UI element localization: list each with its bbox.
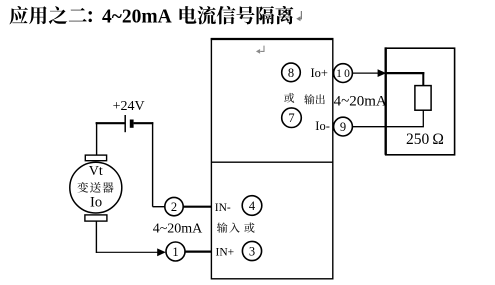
transmitter label 变送器 [77,182,113,193]
load box thick left edge [385,47,387,154]
isolator module box U1 [211,39,332,279]
terminal circle 8 [282,63,301,82]
svg-text:3: 3 [249,244,255,258]
battery B1: long plate [124,115,126,132]
wire: left drop to transmitter [96,122,98,155]
svg-text:7: 7 [288,111,294,125]
svg-text:4: 4 [249,199,256,213]
transmitter T1: body circle [70,162,122,213]
svg-text:2: 2 [171,200,177,214]
battery B1: short thick plate [130,120,134,128]
svg-text:4~20mA: 4~20mA [334,93,387,109]
svg-text:Io-: Io- [315,119,330,133]
terminal circle 9 [334,117,353,136]
terminal circle 7 [282,108,302,128]
或 (input alt label) [244,223,254,233]
wire: circle 1 to box (thick) [185,251,212,253]
terminal circle 10 [334,64,353,83]
terminal circle 3 [242,241,261,260]
svg-text:1: 1 [172,245,178,259]
wire: circle 2 to box (thick) [183,206,211,208]
isolator box thick top edge [211,38,334,40]
svg-text:4~20mA: 4~20mA [153,222,203,237]
或 (output alt label) [284,93,294,103]
svg-text:Io: Io [90,194,102,210]
wire: terminal 10 to load box [352,72,379,74]
title: 应用之二: 4~20mA 电流信号隔离 [9,6,86,24]
svg-text:9: 9 [340,120,346,134]
wire: battery right lead [134,122,154,124]
svg-text:1 0: 1 0 [336,68,350,80]
svg-text:4~20mA: 4~20mA [102,7,172,28]
wire: resistor bottom return [422,110,424,127]
svg-text:8: 8 [288,66,294,80]
wire: right drop to circle 2 [152,122,154,207]
terminal circle 1 [166,242,185,261]
paragraph return mark (title) [298,11,301,19]
svg-text:IN-: IN- [215,202,231,214]
svg-text:IN+: IN+ [216,246,235,258]
terminal circle 2 [165,197,183,215]
wire: transmitter bottom drop [95,221,97,253]
load box [386,48,455,155]
resistor R1 [415,86,431,111]
isolator internal divider [211,161,332,163]
transmitter T1: top terminal [85,155,106,161]
输入 label [217,222,240,232]
svg-text:+24V: +24V [113,99,145,114]
svg-text:250 Ω: 250 Ω [406,131,444,148]
arrowhead into load box [378,69,387,77]
wire: thick feed to resistor top [386,72,424,74]
svg-text:Io+: Io+ [311,66,328,80]
输出 label [304,94,325,104]
terminal circle 4 [242,196,262,216]
transmitter T1: bottom terminal [85,215,107,221]
wire: battery left lead [96,122,126,124]
wire: transmitter to circle 1 with arrowhead [96,251,158,253]
paragraph return mark (inside box) [260,46,264,52]
svg-text:Vt: Vt [89,164,103,179]
